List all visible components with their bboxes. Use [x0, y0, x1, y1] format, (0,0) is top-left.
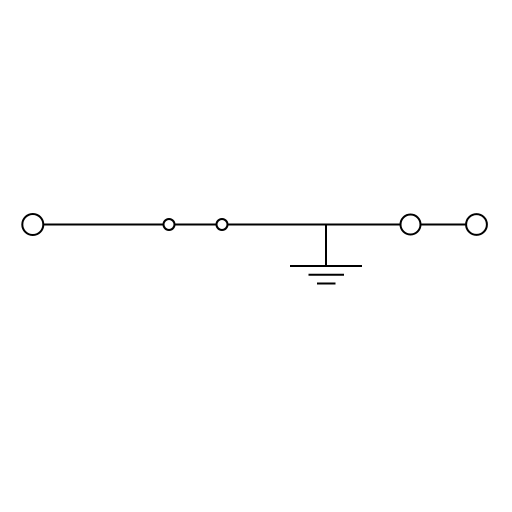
wire main horizontal net — [43, 224, 401, 226]
node small circle 1 — [164, 219, 175, 230]
node small circle 2 — [217, 219, 228, 230]
ground — [290, 266, 362, 284]
terminal circle left — [22, 214, 43, 235]
terminal circle right — [466, 214, 487, 235]
wire vertical drop to ground — [325, 224, 327, 267]
wire right segment — [421, 224, 467, 226]
terminal circle mid-right — [401, 215, 421, 235]
